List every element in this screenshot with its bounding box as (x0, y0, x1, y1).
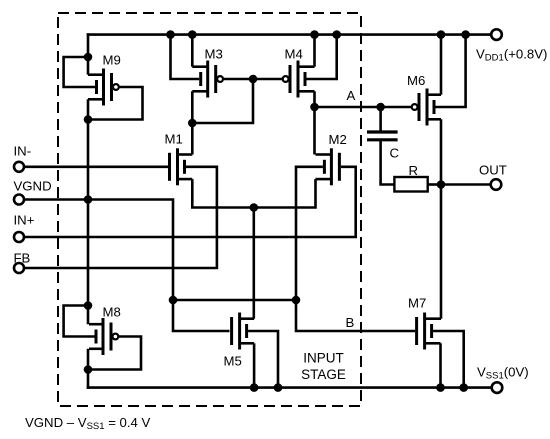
junction dot 23 (459, 383, 468, 392)
wire M1 drain vertical (191, 123, 194, 155)
terminal FB (14, 263, 24, 273)
capacitor C (367, 132, 398, 140)
wire M3 drain vertical (191, 33, 194, 66)
junction dot 16 (250, 203, 259, 212)
wire M9 drain vertical (87, 33, 90, 74)
wire IN- to M1 gate (25, 166, 169, 169)
junction dot 10 (437, 30, 446, 39)
svg-text:M5: M5 (224, 354, 242, 369)
dashed box INPUT STAGE boundary (58, 13, 361, 406)
wire M7 source to rail (439, 343, 442, 389)
transistor M3 (192, 61, 223, 98)
wire IN+ to M2 gate (25, 167, 356, 237)
junction dot 4 (84, 301, 93, 310)
wire FB to M1 bulk (25, 167, 217, 268)
transistor M5 (232, 313, 255, 350)
junction dot 19 (437, 180, 446, 189)
wire M2 drain vertical (313, 106, 316, 155)
svg-text:A: A (347, 88, 356, 103)
wire capacitor bottom lead to resistor (381, 140, 395, 185)
terminal IN+ (14, 232, 24, 242)
junction dot 3 (84, 195, 93, 204)
svg-text:OUT: OUT (479, 163, 507, 178)
wire M3 bulk lead to rail (171, 33, 200, 79)
svg-text:IN-: IN- (14, 144, 32, 159)
junction dot 20 (250, 383, 259, 392)
svg-text:IN+: IN+ (14, 213, 35, 228)
terminal VGND (14, 195, 24, 205)
junction dot 15 (376, 103, 385, 112)
wire M2 bulk to VGND and node B to M7 gate (296, 167, 415, 331)
wire M6 drain vertical (440, 33, 443, 94)
transistor M6 (412, 89, 441, 126)
wire capacitor top lead (379, 106, 382, 132)
junction dot 9 (332, 30, 341, 39)
svg-text:M4: M4 (285, 47, 303, 62)
junction dot 5 (84, 365, 93, 374)
svg-text:C: C (390, 146, 400, 161)
junction dot 8 (310, 30, 319, 39)
resistor R (394, 177, 427, 192)
wire OUT (441, 183, 490, 186)
wire tail to M5 drain (253, 208, 256, 319)
wire M8 gate-drain loop (64, 306, 95, 337)
terminal IN- (14, 162, 24, 172)
junction dot 21 (274, 383, 283, 392)
wire M8 bubble lead loop (89, 337, 141, 370)
junction dot 1 (84, 53, 93, 62)
transistor M7 (417, 313, 441, 350)
terminal VDD1 (491, 29, 502, 40)
junction dot 22 (436, 383, 445, 392)
transistor M9 (88, 69, 119, 106)
svg-text:R: R (409, 163, 419, 178)
wire M8 source vertical (87, 349, 90, 389)
svg-text:M1: M1 (165, 132, 183, 147)
svg-text:M3: M3 (205, 47, 223, 62)
wire M7 bulk to rail (433, 331, 464, 389)
svg-text:M9: M9 (103, 53, 121, 68)
junction dot 7 (188, 30, 197, 39)
svg-text:M8: M8 (103, 305, 121, 320)
wire VDD top rail (87, 33, 491, 36)
label INPUT STAGE (301, 351, 346, 382)
wire M9 bubble lead loop (89, 87, 143, 120)
svg-text:FB: FB (14, 251, 31, 266)
transistor M1 (170, 148, 193, 185)
junction dot 2 (84, 115, 93, 124)
wire M6 source to OUT node and M7 drain (440, 119, 443, 318)
wire M4 bulk to rail (307, 33, 337, 79)
svg-text:M7: M7 (408, 296, 426, 311)
junction dot 17 (169, 296, 178, 305)
wire M6 bulk to rail (435, 33, 466, 107)
junction dot 13 (188, 119, 197, 128)
wire node A (315, 106, 412, 109)
wire VGND net to M5 gate (25, 200, 230, 332)
wire VSS bottom rail (87, 386, 492, 389)
svg-text:INPUT: INPUT (303, 351, 344, 366)
wire M5 bulk to rail (248, 331, 278, 389)
transistor M2 (316, 148, 340, 185)
wire resistor to OUT node (428, 183, 441, 186)
svg-text:M6: M6 (407, 73, 425, 88)
transistor M8 (89, 318, 118, 355)
svg-text:M2: M2 (329, 132, 347, 147)
wire M5 source to rail (253, 343, 256, 389)
junction dot 14 (310, 103, 319, 112)
junction dot 12 (249, 75, 258, 84)
wire M1-M2 source tail (192, 179, 315, 207)
terminal VSS1 (492, 382, 503, 393)
junction dot 6 (166, 30, 175, 39)
terminal OUT (491, 179, 502, 190)
wire VGND cross link (173, 299, 296, 302)
wire M3 diode connection (192, 78, 253, 123)
wire M4 drain vertical (313, 33, 316, 66)
svg-text:VSS1(0V): VSS1(0V) (477, 365, 529, 382)
svg-text:VGND: VGND (14, 179, 52, 194)
wire M3-M4 gate link (224, 78, 283, 81)
wire left column M9 source to M8 drain (87, 99, 90, 324)
wire M4 source to node A (313, 91, 316, 108)
wire M9 gate-drain loop (64, 57, 95, 87)
transistor M4 (283, 61, 315, 98)
svg-text:STAGE: STAGE (301, 367, 346, 382)
junction dot 18 (292, 296, 301, 305)
junction dot 11 (461, 30, 470, 39)
svg-text:B: B (346, 315, 355, 330)
